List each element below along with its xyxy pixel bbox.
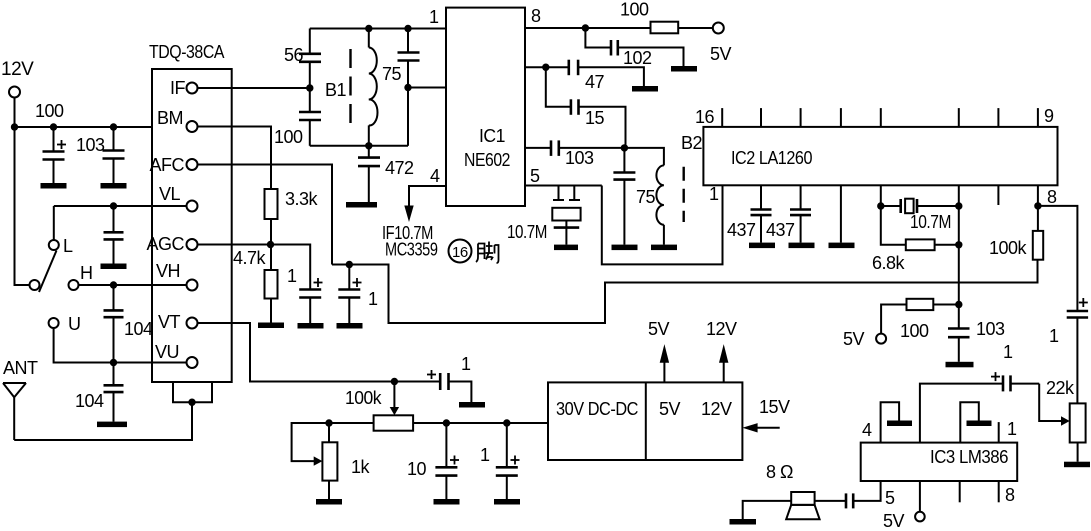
svg-text:10.7M: 10.7M — [910, 212, 951, 232]
svg-text:IF: IF — [170, 78, 186, 98]
tuner block TDQ-38CA — [152, 69, 232, 382]
svg-text:1: 1 — [709, 184, 719, 204]
svg-text:10: 10 — [407, 459, 427, 479]
pin stubs IC2 top — [722, 108, 1038, 127]
svg-text:5V: 5V — [659, 399, 681, 419]
wire IC1 aux pin — [525, 66, 569, 68]
resistor 4.7k — [265, 270, 278, 299]
ground 10u — [434, 499, 460, 505]
pin bypass hook 2 — [960, 402, 979, 442]
node junction VT net — [391, 378, 398, 385]
svg-text:12V: 12V — [701, 399, 732, 419]
capacitor 56 — [299, 29, 321, 89]
pin stub IC3 — [959, 481, 961, 502]
node junction cap103 — [110, 123, 117, 130]
svg-text:4: 4 — [862, 420, 872, 440]
ground filter — [554, 245, 578, 251]
capacitor 103 right — [948, 329, 970, 362]
inductor B2 — [624, 148, 664, 245]
ground 1u dcdc — [494, 499, 520, 505]
terminal 12V — [9, 87, 20, 98]
svg-text:16: 16 — [452, 244, 468, 261]
svg-text:IC3 LM386: IC3 LM386 — [930, 447, 1008, 467]
svg-text:75: 75 — [382, 64, 402, 84]
wire BM to 3.3k — [198, 127, 272, 190]
svg-text:100: 100 — [274, 127, 303, 147]
svg-text:5: 5 — [530, 166, 540, 186]
svg-text:1k: 1k — [351, 457, 371, 477]
ground 437 second — [789, 243, 815, 249]
op-amp IC1 NE602 — [446, 8, 525, 206]
ground 104 lower — [97, 422, 127, 428]
capacitor 47 — [569, 60, 644, 86]
node junction B1 bottom — [365, 142, 372, 149]
svg-text:1: 1 — [429, 7, 439, 27]
svg-text:3.3k: 3.3k — [285, 189, 319, 209]
switch contact U — [49, 318, 59, 328]
wire IC2 gnd pin — [840, 185, 842, 242]
capacitor C 100u electrolytic — [43, 127, 67, 183]
text jiao character — [476, 242, 499, 264]
arrow 15V in — [742, 423, 779, 432]
capacitor 472 — [358, 146, 380, 202]
ground 102 — [671, 66, 697, 72]
svg-text:4.7k: 4.7k — [233, 248, 267, 268]
resistor 3.3k — [265, 189, 278, 219]
node junction H column — [110, 281, 117, 288]
capacitor 103 IF out — [525, 140, 624, 156]
svg-text:22k: 22k — [1046, 378, 1075, 398]
node junction cap75 tap — [404, 84, 411, 91]
svg-text:B1: B1 — [325, 80, 347, 100]
terminal 5V mid — [876, 334, 886, 344]
ground AGC cap — [298, 323, 324, 329]
wire pot left — [329, 422, 374, 424]
pin stub IC2 — [997, 185, 999, 205]
wire 12V rail — [15, 98, 30, 286]
svg-text:103: 103 — [76, 135, 105, 155]
svg-text:AFC: AFC — [150, 155, 185, 175]
svg-text:8: 8 — [1005, 485, 1015, 505]
svg-text:437: 437 — [727, 220, 756, 240]
svg-text:4: 4 — [430, 166, 440, 186]
svg-text:9: 9 — [1044, 106, 1054, 126]
svg-text:8 Ω: 8 Ω — [766, 462, 793, 482]
capacitor 75 IF — [613, 148, 635, 245]
rheostat 1k — [322, 423, 337, 499]
wire B1 bottom rail — [310, 145, 408, 147]
speaker 8 ohm — [786, 492, 819, 519]
capacitor 1u AGC — [299, 278, 322, 323]
capacitor 102 — [585, 28, 683, 66]
capacitor 100 B1 — [299, 88, 321, 146]
ground IC2 pin — [829, 243, 855, 249]
svg-text:102: 102 — [623, 48, 652, 68]
wire AGC — [198, 245, 311, 290]
ground 1k — [316, 499, 342, 505]
svg-text:5V: 5V — [843, 329, 865, 349]
svg-text:IC1: IC1 — [479, 126, 505, 146]
svg-text:H: H — [80, 263, 93, 283]
filter 10.7M ceramic — [525, 186, 602, 245]
ground hook2 — [967, 421, 992, 427]
switch contact H — [69, 280, 79, 290]
svg-text:BM: BM — [157, 108, 183, 128]
node junction 56/100 — [306, 84, 313, 91]
resistor 100 to 5V — [651, 22, 679, 34]
ground VL cap — [101, 264, 127, 270]
svg-text:437: 437 — [766, 220, 795, 240]
wire VL row — [54, 205, 187, 207]
svg-text:1: 1 — [480, 445, 490, 465]
B1 dashed core — [349, 49, 351, 124]
B2 dashed core — [683, 167, 685, 222]
ground AFC cap — [337, 323, 363, 329]
capacitor 1u coupling electrolytic — [991, 372, 1039, 391]
svg-text:1: 1 — [461, 354, 471, 374]
capacitor 437 second — [790, 185, 811, 242]
svg-text:VU: VU — [155, 342, 179, 362]
node junction cap75 top — [404, 25, 411, 32]
svg-text:1: 1 — [1049, 326, 1059, 346]
wire 12V feed to TDQ — [15, 126, 153, 128]
svg-text:1: 1 — [1003, 342, 1013, 362]
ground cap103 — [101, 183, 127, 189]
svg-text:100: 100 — [900, 321, 929, 341]
node junction AFC cap — [346, 261, 353, 268]
svg-text:5V: 5V — [883, 511, 905, 531]
svg-text:15: 15 — [585, 108, 605, 128]
pin 16 circled — [449, 240, 472, 263]
capacitor 15 — [546, 67, 626, 148]
svg-text:104: 104 — [75, 391, 104, 411]
svg-text:MC3359: MC3359 — [385, 240, 438, 260]
arrow 12V out — [719, 344, 728, 382]
capacitor C 103 — [103, 127, 125, 183]
svg-text:1: 1 — [287, 266, 297, 286]
svg-text:8: 8 — [531, 6, 541, 26]
potentiometer 22k — [1070, 403, 1086, 461]
svg-text:L: L — [63, 236, 73, 256]
svg-text:AGC: AGC — [146, 234, 184, 254]
svg-text:NE602: NE602 — [464, 150, 510, 170]
svg-text:VL: VL — [159, 184, 181, 204]
switch blade — [39, 251, 57, 293]
svg-text:5: 5 — [885, 488, 895, 508]
capacitor speaker coupling — [815, 493, 854, 508]
svg-text:1: 1 — [1007, 419, 1017, 439]
pin 4 bypass hook — [881, 402, 900, 442]
ground 22k — [1064, 462, 1090, 468]
svg-text:ANT: ANT — [3, 358, 38, 378]
TDQ bottom tab — [173, 382, 212, 402]
ground 47 — [632, 86, 658, 92]
resistor 100k right — [1033, 185, 1043, 259]
svg-text:100: 100 — [620, 0, 649, 20]
wire B1 top rail — [310, 28, 446, 30]
capacitor 1u dcdc electrolytic — [496, 423, 520, 499]
wiper 22k — [1039, 384, 1070, 426]
svg-text:6.8k: 6.8k — [872, 253, 906, 273]
ground pin4 — [887, 421, 912, 427]
wire pin8 node — [525, 27, 651, 29]
svg-text:15V: 15V — [759, 397, 790, 417]
svg-text:100k: 100k — [989, 238, 1027, 258]
wire pin8 to cap — [1038, 206, 1078, 311]
svg-text:103: 103 — [976, 319, 1005, 339]
svg-text:103: 103 — [565, 148, 594, 168]
node junction 100/103 — [955, 301, 962, 308]
capacitor 104 lower — [104, 363, 124, 422]
wire pot right — [413, 422, 548, 424]
wire IC2 AGC column — [958, 206, 960, 328]
node junction VU column — [110, 359, 117, 366]
capacitor 1u AFC — [338, 265, 361, 324]
wire 3.3k to AGC — [270, 219, 272, 245]
terminal 5V bottom — [919, 481, 921, 512]
inductor B1 — [369, 29, 378, 146]
node junction B1 top — [365, 25, 372, 32]
resistor 6.8k — [881, 206, 959, 250]
node junction cap1 — [503, 419, 510, 426]
wiper 1k — [292, 423, 329, 466]
svg-text:VH: VH — [156, 261, 180, 281]
svg-text:104: 104 — [124, 319, 153, 339]
ground VT cap — [459, 402, 485, 408]
ground cap100 — [41, 183, 67, 189]
wire AFC net staircase to 100k — [332, 260, 1038, 323]
arrow 5V out — [660, 344, 669, 382]
amplifier IC2 LA1260 — [703, 127, 1057, 185]
dc-dc converter block — [548, 382, 742, 460]
capacitor 437 first — [751, 185, 772, 242]
svg-text:B2: B2 — [681, 133, 703, 153]
switch contact L — [49, 240, 59, 250]
pin 1 stub — [998, 422, 1000, 443]
ground 75 IF — [612, 245, 638, 251]
svg-text:1: 1 — [368, 289, 378, 309]
ground 103 right — [946, 362, 974, 368]
pin 8 stub — [998, 481, 1000, 502]
svg-text:12V: 12V — [706, 319, 737, 339]
svg-text:75: 75 — [636, 187, 656, 207]
node junction IF filter — [621, 144, 628, 151]
svg-text:U: U — [68, 314, 81, 334]
svg-text:10.7M: 10.7M — [507, 222, 547, 242]
wire ANT to TDQ common — [14, 402, 192, 440]
potentiometer 100k tuning — [374, 382, 414, 431]
wire speaker to ground — [743, 501, 792, 519]
ground B2 — [651, 245, 677, 251]
resistor 100 to 5V right — [881, 299, 959, 334]
node junction VL column — [110, 202, 117, 209]
terminal 5V top — [713, 23, 724, 34]
wire VT — [198, 323, 395, 382]
svg-text:472: 472 — [385, 158, 414, 178]
wire filter to IC2 pin1 — [602, 185, 723, 264]
ground 4.7k — [258, 323, 284, 329]
switch common contact — [30, 280, 40, 290]
svg-text:8: 8 — [1047, 187, 1057, 207]
ground 472 — [346, 202, 377, 208]
ground 437 first — [749, 243, 775, 249]
capacitor VL bypass — [104, 206, 124, 264]
crystal 10.7M — [881, 185, 959, 213]
svg-text:5V: 5V — [710, 44, 732, 64]
wire IC3 in to cap — [920, 384, 1003, 443]
svg-text:100: 100 — [35, 101, 64, 121]
capacitor 104 upper — [104, 285, 124, 363]
antenna symbol — [3, 383, 26, 440]
svg-text:56: 56 — [284, 45, 304, 65]
wire AFC — [198, 165, 333, 265]
capacitor 1u right electrolytic — [1067, 298, 1088, 403]
capacitor 10u electrolytic — [435, 423, 459, 499]
svg-text:16: 16 — [695, 107, 715, 127]
svg-text:47: 47 — [585, 72, 605, 92]
wire tap to IC1 — [408, 87, 446, 89]
wire U to VU row — [54, 328, 187, 363]
svg-text:30V DC-DC: 30V DC-DC — [556, 399, 638, 419]
svg-text:12V: 12V — [1, 59, 34, 80]
wire IF to B1 — [198, 87, 310, 89]
ground speaker — [730, 519, 757, 525]
wire H row — [79, 284, 187, 286]
svg-text:5V: 5V — [648, 319, 670, 339]
node junction 12V rail — [11, 123, 18, 130]
amplifier IC3 LM386 — [861, 443, 1018, 481]
node junction cap10 — [443, 419, 450, 426]
node junction pin8 — [1034, 202, 1041, 209]
capacitor 75 B1 — [398, 29, 420, 146]
svg-text:TDQ-38CA: TDQ-38CA — [149, 42, 224, 62]
svg-text:100k: 100k — [345, 388, 382, 408]
svg-text:IC2 LA1260: IC2 LA1260 — [731, 148, 812, 168]
node junction AGC — [267, 241, 274, 248]
capacitor 1u VT electrolytic — [394, 370, 471, 402]
node junction cap100 — [50, 123, 57, 130]
svg-text:VT: VT — [158, 312, 181, 332]
